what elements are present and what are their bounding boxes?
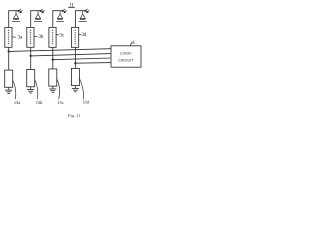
ground (below 13a) — [5, 87, 12, 93]
svg-text:13b: 13b — [36, 100, 43, 105]
bus line 3 (output of 3c to logic circuit) — [53, 58, 111, 60]
vertical text inside amplifier 3b — [30, 30, 32, 45]
ground (below 13c) — [49, 86, 56, 92]
ground (below 13d) — [72, 86, 79, 92]
svg-text:13a: 13a — [14, 100, 20, 105]
wire (unit d vertical to bus and resistor) — [74, 47, 76, 68]
node (junction unit b on bus line 2) — [30, 55, 32, 57]
vertical text inside amplifier 3d — [74, 30, 76, 45]
resistor block 13b — [27, 70, 35, 87]
resistor block 13d — [71, 68, 79, 85]
photodiode 2a — [12, 11, 20, 22]
light arrows into photodiode 2b — [40, 9, 45, 13]
wire (unit a vertical to bus and resistor) — [8, 47, 10, 70]
leader curve for label 13c — [57, 79, 60, 99]
bus line 1 (output of 3a to logic circuit) — [9, 49, 111, 52]
leader line for label 3b — [34, 36, 38, 38]
leader line for label 3a — [12, 36, 16, 38]
bus line 4 (output of 3d to logic circuit) — [75, 62, 111, 65]
vertical text inside amplifier 3c — [52, 30, 54, 45]
svg-text:CIRCUIT: CIRCUIT — [118, 59, 134, 63]
node (junction unit c on bus line 3) — [52, 59, 54, 61]
node (junction unit a on bus line 1) — [8, 50, 10, 52]
wire (unit b top L-wire) — [31, 11, 41, 28]
amplifier block 3a — [5, 27, 12, 47]
wire (unit c top L-wire) — [53, 11, 63, 28]
leader curve for label 13d — [79, 78, 83, 99]
amplifier block 3b — [27, 27, 34, 47]
svg-text:Fig. 11: Fig. 11 — [67, 113, 80, 118]
node (junction unit d on bus line 4) — [74, 62, 76, 64]
svg-text:3a: 3a — [18, 36, 24, 41]
resistor block 13c — [49, 69, 57, 86]
vertical text inside amplifier 3a — [8, 30, 10, 45]
wire (unit c vertical to bus and resistor) — [52, 47, 54, 69]
light arrows into photodiode 2c — [62, 9, 66, 13]
svg-text:3c: 3c — [60, 33, 66, 38]
leader line for label 3c — [56, 34, 59, 36]
leader curve for label 13a — [13, 80, 16, 99]
wire (unit d top L-wire) — [75, 11, 85, 28]
svg-text:3b: 3b — [38, 35, 44, 40]
photodiode 2c — [56, 11, 64, 22]
leader curve for label 13b — [35, 80, 38, 100]
svg-text:LOGIC: LOGIC — [120, 52, 132, 56]
logic circuit box 4 — [111, 46, 141, 67]
photodiode 2d — [79, 11, 87, 22]
amplifier block 3d — [72, 27, 79, 47]
resistor block 13a — [5, 70, 13, 87]
figure reference numeral 11 (underlined) — [68, 2, 75, 8]
svg-text:3d: 3d — [81, 33, 87, 38]
svg-text:13c: 13c — [57, 100, 63, 105]
leader line for label 3d — [79, 33, 82, 35]
light arrows into photodiode 2a — [18, 9, 23, 13]
amplifier block 3c — [49, 27, 56, 47]
svg-text:13d: 13d — [82, 100, 89, 105]
leader tick for label 4 — [130, 42, 132, 46]
wire (unit a top L-wire) — [9, 11, 19, 28]
bus line 2 (output of 3b to logic circuit) — [31, 54, 111, 56]
wire (unit b vertical to bus and resistor) — [30, 47, 32, 69]
photodiode 2b — [34, 11, 42, 22]
light arrows into photodiode 2d — [85, 9, 90, 13]
ground (below 13b) — [27, 87, 34, 93]
